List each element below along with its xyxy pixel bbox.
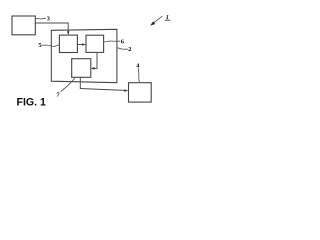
wire 6 to 7 [94,52,97,68]
svg-text:5: 5 [38,42,41,49]
arrow 1 (pointer to whole system) [154,16,163,23]
svg-text:FIG. 1: FIG. 1 [17,97,47,109]
block 2 (outer box) [51,29,117,82]
block 6 (inner top-right box) [86,35,104,52]
block 3 (top-left box) [12,16,35,35]
arrow 5 to 6 [77,44,82,46]
leader 4 [138,69,139,83]
wire 7 to 4 [80,77,124,90]
block 4 (bottom-right box) [129,83,152,102]
svg-text:3: 3 [47,15,50,22]
leader 7 [61,78,75,91]
block 7 (inner bottom box) [72,59,91,78]
arrowhead into block 5 top [67,31,70,35]
wire 3 to 5 [36,23,69,32]
svg-text:2: 2 [128,46,131,53]
block 5 (inner top-left box) [59,35,77,52]
leader 2 [117,48,128,49]
leader 3 [36,17,46,20]
leader 6 [104,40,121,43]
leader 5 [41,45,59,47]
